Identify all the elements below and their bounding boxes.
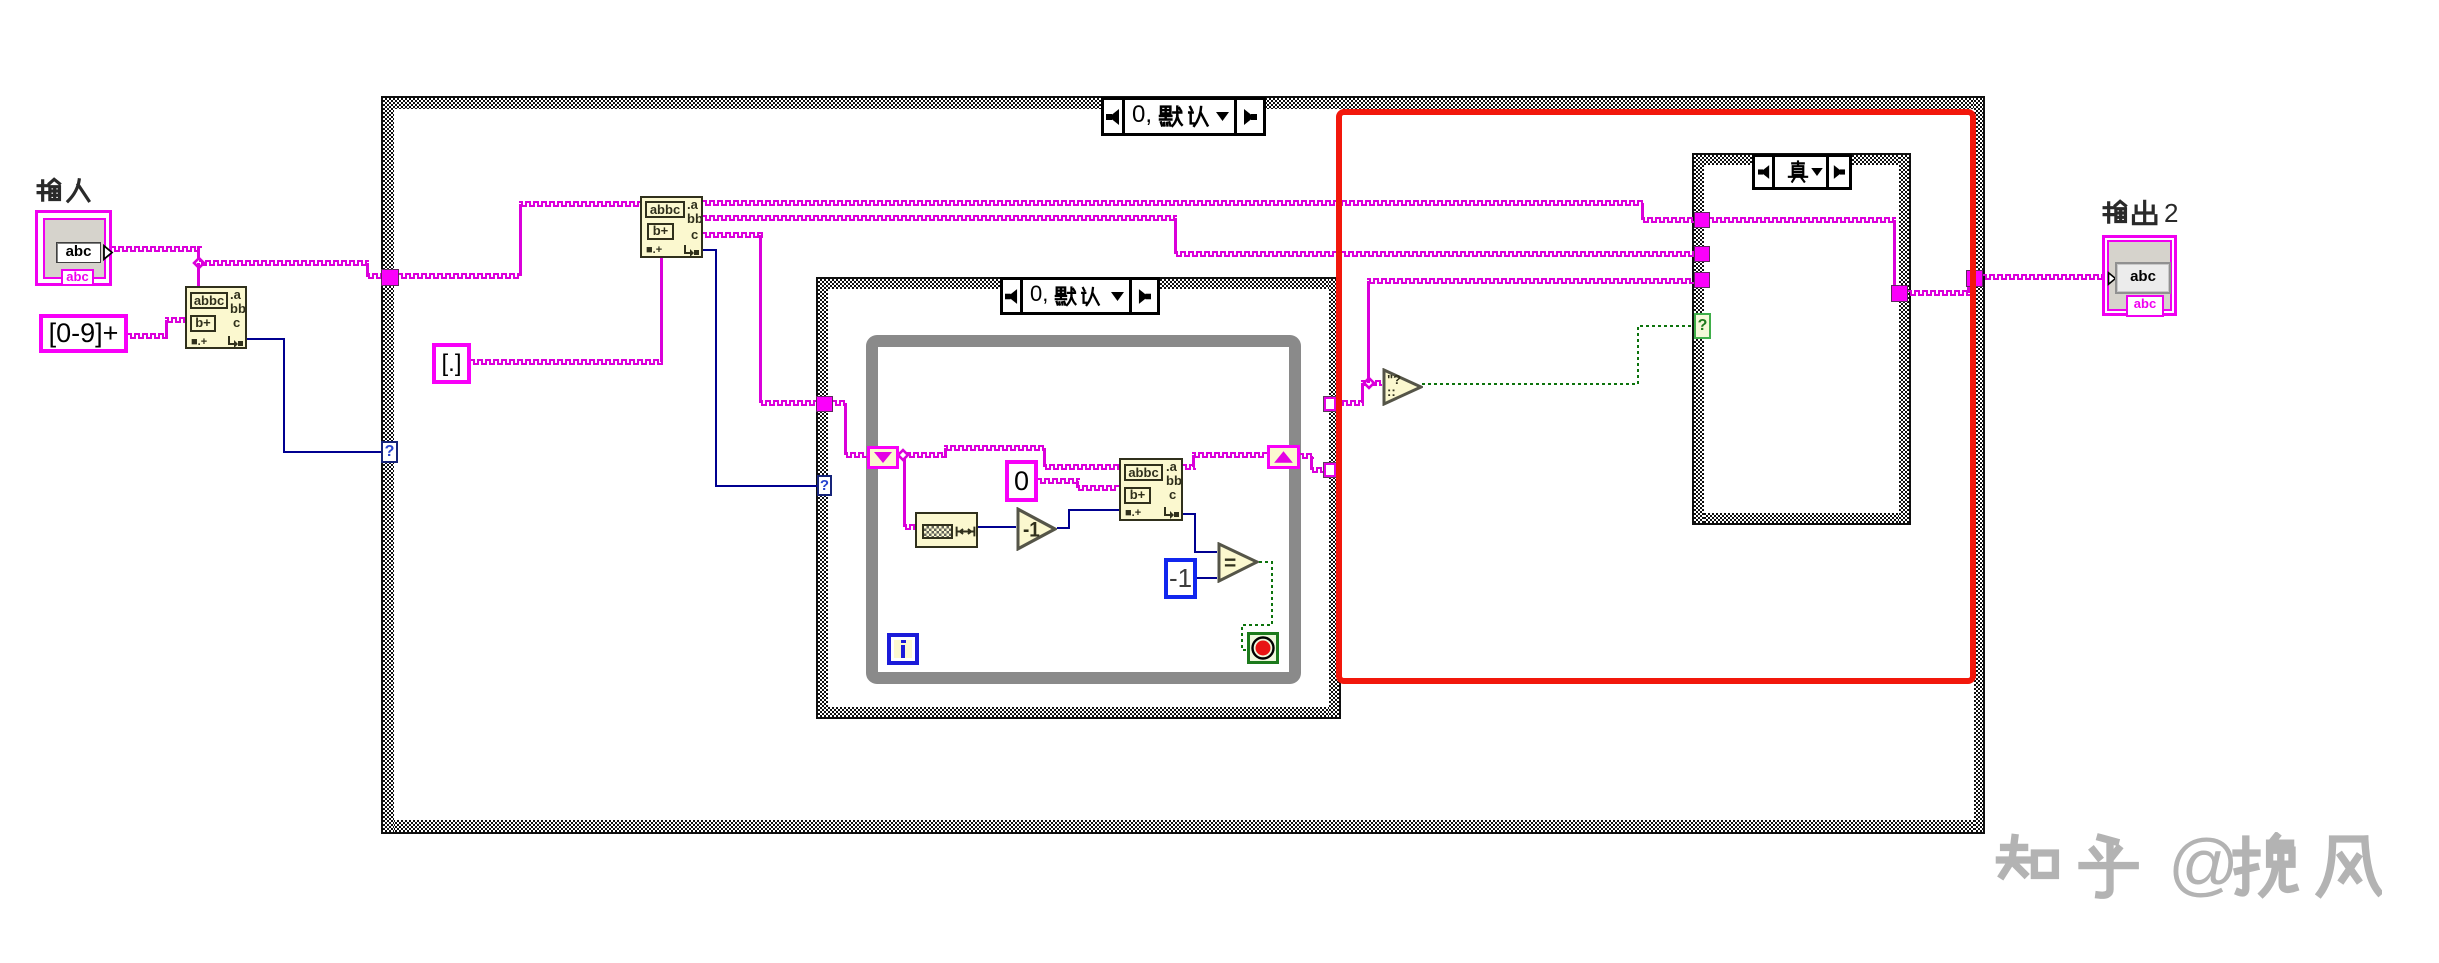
abc type tag xyxy=(61,269,94,286)
wire: J3 up to true-case tunnel T3 xyxy=(1367,281,1370,383)
empty string test triangle xyxy=(1382,368,1423,406)
string constant [.] xyxy=(432,343,471,384)
inner case right tunnel Ta (hollow) xyxy=(1324,397,1336,411)
wire: MP3 before-substring out to right shift register xyxy=(1183,465,1196,469)
CJK glyph defs (drawn as strokes) xyxy=(0,0,1,1)
decrement triangle xyxy=(1016,507,1057,551)
big case left tunnel xyxy=(381,269,399,286)
wire: MP2 before-substring output to true-case tunnel T1 xyxy=(703,201,1644,205)
label: 输出 2 xyxy=(2101,198,2103,200)
wire: decrement to MP3 offset input (blue) xyxy=(1057,510,1119,528)
wire: right shift register to inner tunnel Tb xyxy=(1300,454,1314,458)
while loop frame xyxy=(866,335,1301,684)
watermark 知乎 @挽风 xyxy=(1991,823,1993,825)
wire: -1 constant to equal comparison (blue) xyxy=(1197,577,1217,579)
inner case right tunnel Tb (hollow) xyxy=(1324,463,1336,477)
inner case selector label "0, 默认" xyxy=(1000,277,1160,315)
svg-text:=: = xyxy=(1224,552,1236,575)
wire: MP2 after-substring output to inner case left tunnel xyxy=(703,233,763,237)
true case selector label "真" xyxy=(1752,154,1852,190)
match pattern MP3 xyxy=(1119,458,1183,521)
loop iteration terminal i xyxy=(887,633,919,665)
wire: string length to decrement (blue) xyxy=(978,526,1016,528)
label: 输入 xyxy=(36,177,92,204)
string constant 0 xyxy=(1005,460,1038,502)
abc text box xyxy=(56,242,101,263)
increment arrow xyxy=(102,244,114,261)
true case tunnel T2 xyxy=(1694,246,1710,262)
match pattern MP1 xyxy=(185,286,247,349)
match pattern MP2 xyxy=(640,196,703,258)
string indicator 输出 2 xyxy=(2102,235,2177,316)
big case right tunnel xyxy=(1966,270,1983,287)
big case selector terminal ? xyxy=(381,441,398,463)
wire: MP2 offset output to inner case selector (blue) xyxy=(703,250,817,486)
big case structure frame xyxy=(381,96,1985,834)
node J1 junction diamond xyxy=(194,258,204,268)
numeric constant -1 xyxy=(1164,558,1197,599)
wire: MP1 offset output to case selector (blue) xyxy=(247,339,383,452)
string length icon xyxy=(915,512,978,548)
red annotation rectangle xyxy=(1336,109,1976,684)
wire: J1 to big case left tunnel xyxy=(199,261,369,265)
wire: MP2 match-substring output to true-case tunnel T2 xyxy=(703,216,1177,220)
wire: big case left tunnel to MP2 string input xyxy=(399,274,522,278)
inner case selector terminal ? xyxy=(817,475,832,496)
wire: true-case T1 to right tunnel of true case xyxy=(1710,218,1896,222)
wire: 0 constant to MP3 regex input xyxy=(1038,479,1080,483)
string control 输入 xyxy=(35,210,112,286)
wire: true-case right tunnel to big case right tunnel xyxy=(1908,291,1971,295)
big case selector label "0, 默认" xyxy=(1101,97,1266,136)
true case tunnel T3 xyxy=(1694,272,1710,288)
wire: MP3 offset out to equal comparison (blue) xyxy=(1183,514,1217,552)
right shift register xyxy=(1267,445,1300,469)
wire: shift register out, J2 junction, to MP3 xyxy=(899,453,947,457)
equal comparison triangle xyxy=(1217,542,1259,583)
true case structure frame xyxy=(1692,153,1911,525)
true case right tunnel xyxy=(1891,285,1908,302)
wire: equal comparison to loop stop terminal (green dotted) xyxy=(1242,562,1272,650)
inner case structure frame xyxy=(816,277,1341,719)
wire: inner case tunnel Ta to J3 junction and empty-string test xyxy=(1336,401,1364,405)
wire: input control to junction J1 xyxy=(112,247,202,251)
inner case left tunnel xyxy=(816,396,833,412)
wire: regex constant [0-9]+ to MP1 xyxy=(128,334,168,338)
wire: [.] constant up into MP2 regex input xyxy=(471,360,663,364)
wire: empty-string test to green boolean tunnel (green dotted) xyxy=(1422,326,1694,384)
true case green boolean tunnel ? xyxy=(1694,313,1711,339)
left shift register xyxy=(867,446,899,469)
wire: J1 down to MP1 string input xyxy=(197,263,200,287)
loop stop terminal xyxy=(1247,632,1279,664)
wire: inner tunnel to left shift register xyxy=(833,401,847,405)
true case tunnel T1 xyxy=(1694,212,1710,228)
string constant [0-9]+ xyxy=(39,314,128,353)
svg-text:-1: -1 xyxy=(1023,519,1040,542)
wire: big case right tunnel to output indicator xyxy=(1983,275,2105,279)
